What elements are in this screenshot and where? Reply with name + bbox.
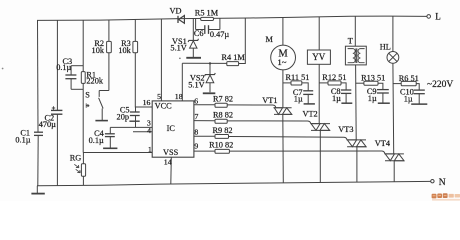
wire pin 1	[83, 152, 152, 154]
svg-text:5.1V: 5.1V	[170, 43, 186, 52]
svg-text:9: 9	[194, 142, 198, 151]
wire pin 3	[110, 126, 152, 128]
resistor R3	[118, 39, 137, 55]
triac VT3	[338, 125, 366, 147]
capacitor C9	[367, 83, 390, 103]
wire YV column top	[318, 17, 320, 50]
terminal L	[427, 11, 441, 21]
ground	[31, 186, 44, 194]
svg-text:R10 82: R10 82	[209, 141, 233, 150]
svg-text:R9 82: R9 82	[213, 126, 233, 135]
svg-text:0.1µ: 0.1µ	[15, 135, 30, 144]
svg-text:VD: VD	[170, 6, 182, 15]
triac VT4	[375, 139, 404, 161]
resistor R9	[213, 126, 233, 138]
wire top rail L	[37, 16, 427, 20]
node bar C3 top	[71, 65, 83, 67]
zener VS1	[170, 18, 201, 57]
svg-text:~220V: ~220V	[427, 80, 453, 90]
wire VT2 to bottom rail	[319, 130, 321, 182]
resistor R8	[213, 110, 233, 123]
capacitor C5	[117, 106, 140, 128]
resistor R11	[283, 73, 310, 85]
wire YV to VT2	[318, 64, 320, 123]
svg-text:0.1µ: 0.1µ	[89, 136, 104, 145]
capacitor C3	[56, 57, 76, 89]
svg-text:1: 1	[148, 145, 152, 154]
resistor R6	[393, 74, 419, 86]
wire T column top	[354, 16, 356, 46]
svg-text:14: 14	[164, 157, 172, 166]
photoresistor RG	[70, 153, 86, 186]
wire HL column top	[392, 16, 394, 51]
wire gate row pin 9	[194, 150, 215, 152]
resistor R4	[222, 53, 246, 66]
svg-text:R11 51: R11 51	[286, 73, 310, 82]
svg-text:HL: HL	[380, 43, 391, 52]
wire T to VT3	[355, 65, 358, 140]
wire R7 to VT1 gate	[227, 105, 276, 108]
capacitor C2	[39, 106, 63, 129]
wire VT3 to bottom rail	[356, 147, 358, 183]
resistor R12	[319, 73, 346, 85]
wire HL to VT4	[392, 63, 395, 154]
node dot VS2	[209, 62, 211, 64]
wire pin 5	[160, 19, 162, 101]
svg-text:R5 1M: R5 1M	[195, 9, 219, 18]
lamp HL	[380, 43, 399, 64]
svg-text:S: S	[85, 91, 90, 100]
solenoid YV	[307, 50, 330, 64]
diode VD	[170, 6, 185, 23]
triac VT1	[262, 96, 292, 114]
svg-text:VT2: VT2	[303, 110, 318, 119]
svg-text:VT3: VT3	[338, 125, 353, 134]
svg-text:T: T	[348, 37, 353, 46]
svg-text:M: M	[266, 35, 274, 44]
svg-text:5: 5	[157, 92, 161, 101]
wire C1 branch bottom	[37, 135, 39, 185]
wire gate row pin 6	[194, 104, 215, 106]
node bar C3 bottom	[71, 88, 83, 90]
wire R3 bottom to pin 16	[135, 53, 152, 107]
svg-text:0.1µ: 0.1µ	[56, 63, 71, 72]
wire bottom rail N	[37, 181, 431, 185]
transformer T	[345, 37, 366, 65]
svg-text:C6: C6	[194, 29, 204, 38]
motor M	[266, 35, 296, 70]
svg-text:VSS: VSS	[163, 148, 179, 157]
svg-text:YV: YV	[312, 52, 325, 62]
svg-text:7: 7	[195, 112, 199, 121]
triac VT2	[303, 110, 331, 131]
svg-text:8: 8	[194, 127, 198, 136]
svg-text:L: L	[435, 11, 441, 21]
wire R1 bottom to pin1 wire	[82, 83, 84, 152]
wire VT1 to bottom rail	[282, 114, 285, 183]
wire gate row pin 8	[194, 135, 215, 137]
svg-text:R6 51: R6 51	[399, 74, 419, 83]
watermark	[432, 193, 460, 200]
wire R8 to VT2 gate	[227, 121, 311, 124]
svg-text:18: 18	[175, 92, 183, 101]
wire motor to VT1	[282, 70, 284, 108]
wire C1 branch top	[37, 20, 40, 132]
svg-text:220k: 220k	[86, 77, 103, 86]
svg-text:10k: 10k	[118, 46, 131, 55]
wire R10 to VT4 gate	[229, 151, 385, 154]
svg-text:10k: 10k	[92, 46, 105, 55]
resistor R2	[92, 39, 112, 55]
capacitor C6	[194, 18, 230, 39]
wire gate row pin 7	[194, 120, 215, 122]
svg-text:470µ: 470µ	[39, 120, 56, 129]
svg-text:0.47µ: 0.47µ	[210, 30, 230, 39]
resistor R10	[209, 141, 233, 154]
wire R2 branch top	[108, 20, 110, 41]
capacitor C4	[89, 127, 118, 148]
resistor R13	[355, 74, 385, 86]
svg-text:IC: IC	[167, 124, 176, 133]
switch S	[85, 91, 109, 121]
svg-text:6: 6	[194, 96, 198, 105]
svg-text:1µ: 1µ	[368, 94, 377, 103]
wire R3 branch top	[134, 20, 136, 42]
wire VT4 to bottom rail	[393, 161, 395, 182]
svg-text:1µ: 1µ	[404, 95, 413, 104]
svg-text:1µ: 1µ	[294, 95, 303, 104]
capacitor C8	[331, 83, 352, 103]
speck noise	[2, 68, 4, 70]
wire pin 14	[170, 157, 173, 184]
wire R1/C3 branch top	[82, 20, 84, 72]
zener VS2	[188, 63, 215, 93]
svg-text:VCC: VCC	[155, 101, 173, 110]
svg-text:R4 1M: R4 1M	[222, 53, 246, 62]
svg-text:4: 4	[147, 126, 151, 135]
svg-text:R7 82: R7 82	[213, 95, 233, 104]
svg-text:RG: RG	[70, 154, 82, 163]
svg-text:N: N	[439, 178, 446, 188]
svg-text:5.1V: 5.1V	[188, 81, 204, 90]
svg-text:20p: 20p	[117, 113, 129, 122]
IC U1 box	[152, 101, 194, 157]
wire R9 to VT3 gate	[229, 137, 348, 140]
svg-text:R8 82: R8 82	[213, 110, 233, 119]
capacitor C10	[400, 84, 427, 105]
svg-text:1µ: 1µ	[332, 94, 341, 103]
svg-text:1~: 1~	[277, 57, 286, 67]
resistor R1	[81, 70, 104, 85]
wire C2 branch bottom	[56, 114, 58, 185]
wire R4 to rail	[239, 18, 246, 63]
resistor R5	[195, 9, 219, 21]
svg-text:16: 16	[143, 98, 151, 107]
svg-text:R12 51: R12 51	[322, 73, 346, 82]
svg-text:R13 51: R13 51	[361, 74, 385, 83]
wire VS2 node	[182, 62, 227, 64]
svg-text:VT4: VT4	[375, 139, 391, 148]
wire R2 bottom	[108, 53, 110, 91]
wire pin 18	[181, 63, 183, 101]
svg-text:VT1: VT1	[262, 96, 277, 105]
wire pin 4	[133, 131, 152, 133]
terminal N	[431, 178, 446, 188]
capacitor C7	[293, 83, 315, 104]
wire motor column top	[282, 18, 284, 46]
wire C2 branch top	[56, 20, 58, 110]
capacitor C1	[15, 129, 43, 145]
resistor R7	[213, 95, 233, 108]
